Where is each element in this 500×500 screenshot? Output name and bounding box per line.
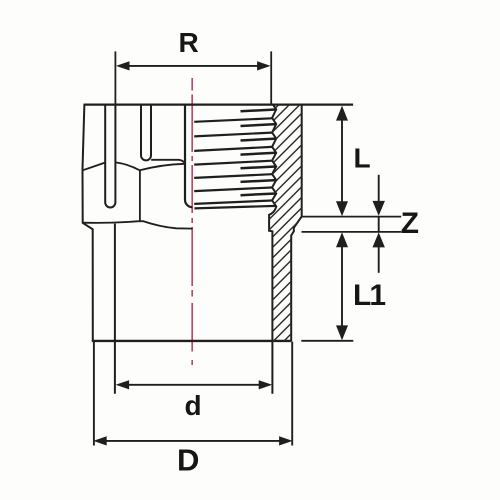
dimension D: extension lines bbox=[93, 342, 95, 446]
hex vertical edge bbox=[139, 170, 141, 221]
thread crest lines (long) bbox=[194, 118, 275, 208]
section inner profile: thread zigzag, throat, socket step bbox=[269, 105, 276, 394]
hex chamfer, V right arm to center face bbox=[140, 164, 185, 171]
dimension L1: line with arrows bbox=[341, 238, 343, 334]
dimension L: line with arrows bbox=[341, 112, 343, 210]
hex chamfer, center face upper line bbox=[151, 160, 185, 164]
bore line left (inner socket wall, view side) bbox=[114, 224, 116, 394]
Z lower arrow bbox=[378, 246, 380, 273]
svg-text:Z: Z bbox=[401, 207, 419, 240]
dimension D: line with arrows bbox=[101, 440, 285, 442]
dimension d: line with arrows bbox=[123, 384, 265, 386]
thread root lines (short) bbox=[241, 110, 276, 196]
bottom edge bbox=[92, 340, 292, 342]
Z extension lines bbox=[302, 216, 402, 218]
slot 3 (half slot at section plane) bbox=[185, 104, 192, 208]
svg-text:D: D bbox=[177, 442, 199, 477]
dimension R: dimension line with arrows bbox=[124, 65, 263, 67]
left outline of body bbox=[83, 104, 93, 341]
hex bottom wavy edge bbox=[83, 221, 193, 229]
svg-text:L1: L1 bbox=[353, 279, 385, 312]
dimension R: extension lines bbox=[114, 51, 116, 104]
slot 1 (long slot in collar) bbox=[105, 104, 115, 208]
hex chamfer, left-center V left arm bbox=[116, 162, 140, 170]
centerline (red dash-dot axis) bbox=[191, 78, 193, 365]
Z upper arrow bbox=[378, 175, 380, 203]
slot 2 (short slot in collar) bbox=[141, 104, 151, 161]
L1 bottom extension line bbox=[301, 340, 353, 342]
wall hatching bbox=[259, 58, 315, 398]
svg-text:L: L bbox=[354, 143, 371, 174]
Z dimension connector bbox=[378, 217, 380, 232]
hex chamfer arc, left face bbox=[83, 163, 105, 171]
body top edge bbox=[84, 103, 353, 105]
svg-text:R: R bbox=[178, 27, 198, 58]
outer wall right (section) bbox=[291, 104, 302, 341]
svg-text:d: d bbox=[184, 390, 201, 421]
